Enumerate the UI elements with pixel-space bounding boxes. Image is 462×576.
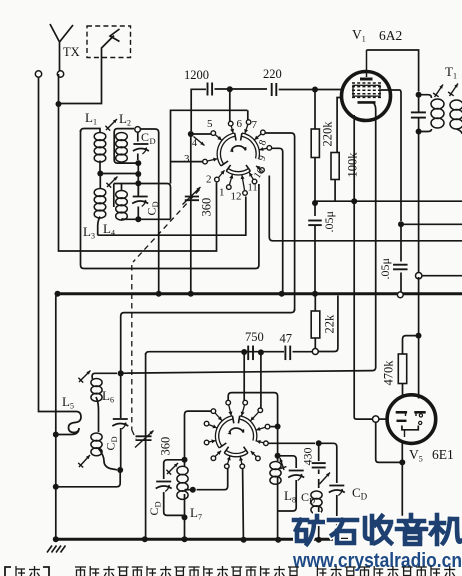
wire CD L8 branch xyxy=(278,456,297,511)
svg-text:7: 7 xyxy=(252,119,258,131)
rotary band switch S1 contact 7 xyxy=(249,172,257,183)
rotary band switch S1 contact 2 xyxy=(228,121,234,133)
svg-text:2: 2 xyxy=(206,174,212,186)
rotary band switch S2 contact 3 xyxy=(241,400,248,415)
svg-text:750: 750 xyxy=(245,330,264,344)
wire 220 to V1 xyxy=(279,89,342,91)
junction L1 L3 xyxy=(97,171,103,177)
wire V1 right exit xyxy=(381,90,401,221)
bus wire ground xyxy=(56,538,348,541)
rotary band switch S1 rotor xyxy=(230,146,247,153)
wire TX to node xyxy=(59,58,102,104)
junction L4 box top xyxy=(135,180,141,186)
capacitor CD (V5 branch) xyxy=(329,486,345,496)
junction bus x282 xyxy=(279,291,285,297)
wire 22k bottom stem xyxy=(314,338,316,348)
rotary band switch S1 contact 4 xyxy=(255,130,266,140)
svg-text:6A2: 6A2 xyxy=(379,28,402,43)
rotary band switch S2 contact 5 xyxy=(204,421,217,428)
svg-text:470k: 470k xyxy=(382,360,396,386)
rotary band switch S2 contact 7 xyxy=(204,439,215,444)
wire contact to 430 line xyxy=(268,442,315,444)
wire contact10 down xyxy=(269,176,462,241)
rotary band switch S1 contact 6 xyxy=(256,166,264,172)
variable capacitor 360 gang2 plates xyxy=(136,436,152,440)
junction V5 bottom xyxy=(399,459,405,465)
svg-text:360: 360 xyxy=(200,198,214,217)
wire L1 bottom lead xyxy=(99,161,101,174)
svg-text:L3: L3 xyxy=(83,224,95,241)
svg-text:CD: CD xyxy=(104,436,120,450)
wire L4 box right up xyxy=(171,110,248,183)
capacitor CD (L4) xyxy=(132,197,148,207)
junction cathode line x355 xyxy=(351,198,357,204)
svg-text:100k: 100k xyxy=(346,152,360,178)
junction T1 top xyxy=(416,92,422,98)
rotary band switch S2 contact 4 xyxy=(251,408,263,421)
wire V1 cathode down xyxy=(121,103,376,373)
capacitor 1200 xyxy=(208,83,213,96)
junction L4 CD bottom xyxy=(135,216,141,222)
junction gnd x278 xyxy=(275,537,281,543)
adjust arrow L6 lower xyxy=(78,455,90,468)
wire contact5 link xyxy=(191,133,211,135)
capacitor 750 xyxy=(248,346,253,361)
variable capacitor 360 gang1 arrow xyxy=(183,187,201,205)
wire V5 left entry xyxy=(379,418,387,420)
wire contact8 right xyxy=(265,133,294,311)
label CD of L6 xyxy=(104,436,120,450)
wire 430 line corner xyxy=(319,443,337,481)
rotary band switch S1 contact 10 xyxy=(215,170,225,182)
rotary band switch S2 contact 6 xyxy=(256,424,270,430)
junction L2 box corner xyxy=(135,160,141,166)
tube V5 envelope xyxy=(387,395,436,444)
rotary band switch S2 contact 10 xyxy=(251,451,260,461)
svg-text:.05μ: .05μ xyxy=(378,258,392,279)
variable capacitor 360 gang1 plates xyxy=(185,197,199,201)
junction L7 tap xyxy=(190,487,196,493)
rotary band switch S1 body arcs xyxy=(219,133,258,173)
wire L2 top to right drop xyxy=(140,129,158,291)
svg-text:L7: L7 xyxy=(190,505,202,522)
wire L7 spine bottom xyxy=(184,460,186,538)
wire 1200 to 220 xyxy=(215,88,268,90)
adjust arrow 430 xyxy=(320,473,331,485)
capacitor CD (L8) xyxy=(288,471,304,481)
svg-text:47: 47 xyxy=(280,332,293,346)
capacitor 220 xyxy=(272,83,277,96)
junction gnd x318 xyxy=(316,537,322,543)
junction avc line left xyxy=(118,370,124,376)
junction CD L6 bottom xyxy=(117,467,123,473)
wire L9 top xyxy=(318,479,320,488)
wire CD L6 to ground rail xyxy=(56,470,120,487)
capacitor CD (L6) xyxy=(112,419,128,429)
wire 1200 branch left xyxy=(191,89,206,131)
capacitor 47 xyxy=(285,346,290,361)
resistor 470k xyxy=(398,354,406,384)
wire V1 grid left exit xyxy=(337,98,341,153)
rotary band switch S1 contact 5 xyxy=(259,146,271,151)
svg-text:CD: CD xyxy=(147,501,163,515)
adjust arrow L3L4 xyxy=(106,177,117,188)
capacitor CD (L7) xyxy=(156,482,172,492)
wire V1 topcap to right xyxy=(367,50,419,92)
rotary band switch S1 contact 11 xyxy=(203,158,218,164)
junction gnd x243 xyxy=(241,537,247,543)
wire left rail upper xyxy=(56,294,58,538)
junction gang1 top xyxy=(188,131,194,137)
wire contact3 left xyxy=(171,161,203,163)
junction 750 right xyxy=(258,349,264,355)
wire CD L7 branch xyxy=(164,460,185,516)
inductor L7 xyxy=(177,466,188,499)
wire T1 prim top xyxy=(419,95,432,98)
junction left rail mid xyxy=(53,484,59,490)
svg-text:220: 220 xyxy=(263,67,282,81)
rotary band switch S2 body arcs xyxy=(217,416,255,455)
rotary band switch S1 contact 8 xyxy=(241,175,248,195)
svg-text:8: 8 xyxy=(257,139,269,147)
svg-text:L1: L1 xyxy=(85,110,97,127)
svg-text:1: 1 xyxy=(219,187,225,199)
wire S2 top link xyxy=(228,393,277,424)
junction mid tap xyxy=(135,171,141,177)
wire screen line right xyxy=(401,223,462,225)
capacitor .05u first xyxy=(308,221,322,226)
junction bus x158 xyxy=(156,291,162,297)
inductor L5 xyxy=(58,412,81,435)
junction bus x191 xyxy=(188,291,194,297)
svg-text:9: 9 xyxy=(256,154,268,162)
svg-text:T1: T1 xyxy=(445,64,457,81)
wire CD L4 stem xyxy=(137,183,139,219)
antenna symbol xyxy=(50,24,73,74)
wire L8 spine xyxy=(277,456,279,538)
svg-text:V5: V5 xyxy=(409,447,423,464)
tube V1 envelope xyxy=(342,72,391,121)
svg-text:CD: CD xyxy=(352,485,368,502)
svg-text:L6: L6 xyxy=(102,388,114,405)
tube V1 top cap and grids xyxy=(352,50,381,102)
wire L6 lower bottom xyxy=(98,448,117,470)
inductor L4 xyxy=(116,191,128,221)
wire osc tank bottom line xyxy=(98,197,246,236)
terminal V5 left xyxy=(373,416,379,422)
svg-text:3: 3 xyxy=(184,153,190,165)
inductor L9 xyxy=(311,491,322,514)
rotary band switch S1 contact 9 xyxy=(227,175,234,190)
wire L2 box xyxy=(114,129,138,164)
wire L4 box xyxy=(114,184,171,220)
wire 750 right down xyxy=(260,353,262,408)
svg-text:12: 12 xyxy=(231,191,242,203)
tube V5 internals xyxy=(396,412,426,437)
wire L7 tap stub xyxy=(185,489,193,491)
rotary band switch S2 contact 12 xyxy=(239,457,245,469)
wire S2 right contact link xyxy=(270,426,278,428)
terminal bus x399 xyxy=(397,292,403,298)
wire 470k bottom xyxy=(402,384,404,398)
terminal 22k bottom xyxy=(312,349,318,355)
junction gnd x56 xyxy=(53,536,59,542)
wire AVC right xyxy=(422,275,462,277)
rotary band switch S2 contact 8 xyxy=(257,440,269,446)
svg-text:D: D xyxy=(150,136,156,146)
rotary band switch S2 contact 1 xyxy=(211,409,222,421)
wire L4 top lead xyxy=(121,184,123,192)
junction bus x57 xyxy=(55,291,61,297)
junction 750 left xyxy=(241,349,247,355)
wire L4 bottom lead xyxy=(122,218,139,221)
wire CD V5branch stem xyxy=(336,481,338,538)
svg-text:22k: 22k xyxy=(323,314,337,334)
inductor L8 xyxy=(270,462,281,485)
svg-text:1200: 1200 xyxy=(184,68,209,82)
terminal ant left xyxy=(35,71,41,77)
adjust arrow L8 xyxy=(280,458,287,470)
inductor L1 xyxy=(94,133,106,163)
svg-text:L5: L5 xyxy=(62,394,74,411)
adjust arrow T1 sec xyxy=(448,84,458,97)
adjust arrow L7 xyxy=(166,463,178,475)
wire x419 down to V5 xyxy=(418,277,420,399)
wire CD L2 stem xyxy=(137,132,139,160)
label CD of L4 xyxy=(145,201,161,215)
terminal L2 top xyxy=(135,127,141,133)
junction antenna node xyxy=(56,101,62,107)
wire V5 cathode down xyxy=(401,442,403,516)
svg-text:6E1: 6E1 xyxy=(432,447,454,462)
gang dashed link xyxy=(132,190,200,440)
contact 4 arrow xyxy=(194,137,205,146)
junction T1 bottom xyxy=(416,129,422,135)
wire V5 left drop xyxy=(376,422,403,462)
resistor 22k xyxy=(311,311,320,338)
wire 220k stem xyxy=(314,90,316,217)
wire 430 stem xyxy=(318,443,320,474)
adjust arrow L6 xyxy=(78,371,90,383)
rotary band switch S1 contact 1 xyxy=(211,131,222,140)
wire V1 pin left down xyxy=(354,115,372,419)
capacitor CD (L2) xyxy=(133,144,149,154)
svg-text:11: 11 xyxy=(248,183,258,194)
junction gnd x145 xyxy=(142,536,148,542)
wire 750 left down xyxy=(243,353,245,401)
wire L1 box left side xyxy=(81,130,259,269)
svg-text:L2: L2 xyxy=(119,111,131,128)
variable capacitor 360 gang2 arrow xyxy=(135,431,154,448)
inductor L3 xyxy=(94,189,106,219)
wire L6 top xyxy=(92,373,117,379)
wire cathode line xyxy=(315,200,462,202)
wire L1 top lead xyxy=(81,129,101,134)
wire gang1 vertical xyxy=(190,134,192,291)
capacitor T1 parallel xyxy=(411,112,426,117)
label CD of L7 xyxy=(147,501,163,515)
wire antenna node down to contact2 xyxy=(59,74,217,251)
junction 470k line xyxy=(416,333,422,339)
junction grid line xyxy=(312,87,318,93)
transformer T1 secondary xyxy=(450,100,462,134)
bus wire B plus xyxy=(58,292,462,295)
junction bus x315 xyxy=(312,291,318,297)
wire S2 right down xyxy=(277,427,279,454)
wire mid junction link xyxy=(100,173,138,175)
svg-text:TX: TX xyxy=(63,45,80,59)
svg-text:360: 360 xyxy=(159,437,173,456)
wire x145 down xyxy=(145,353,147,538)
inductor L2 xyxy=(116,133,128,163)
svg-text:220k: 220k xyxy=(321,121,335,147)
wire 470k top link xyxy=(403,336,419,354)
junction gnd x184 xyxy=(182,536,188,542)
junction L6 top x120 xyxy=(118,370,124,376)
wire contact 12 S2 down xyxy=(242,469,245,538)
wire L3 top lead xyxy=(99,174,101,190)
junction L5 bottom xyxy=(53,432,59,438)
junction L7 top xyxy=(182,457,188,463)
wire 22k top stem xyxy=(314,296,316,312)
junction L8 top xyxy=(275,453,281,459)
rotary band switch S1 contact 3 xyxy=(244,120,251,134)
watermark big text xyxy=(294,516,324,544)
rotary band switch S2 contact 9 xyxy=(211,451,221,461)
adjust arrow T1 prim xyxy=(433,85,443,98)
rotary band switch S2 contact 2 xyxy=(226,400,233,415)
wire contact7 stub xyxy=(247,110,249,120)
wire L7 tap link xyxy=(197,469,228,490)
TX switch blade xyxy=(102,29,120,58)
wire L6 spine xyxy=(96,397,99,432)
wire padder line xyxy=(146,296,338,356)
resistor 100k xyxy=(331,153,339,180)
caption text xyxy=(5,566,455,576)
wire contact6 up xyxy=(229,89,231,121)
terminal AVC out xyxy=(416,273,422,279)
rotary band switch S2 rotor xyxy=(227,428,244,435)
wire S2 left feed xyxy=(185,411,212,459)
wire T1 prim bottom xyxy=(419,129,432,132)
junction 430 top xyxy=(316,440,322,446)
svg-text:.05μ: .05μ xyxy=(322,211,336,232)
wire x138 stem xyxy=(137,163,139,196)
wire L3 bottom lead xyxy=(98,217,100,236)
capacitor .05u second xyxy=(393,265,408,270)
wire x120 branch xyxy=(120,373,122,470)
transformer T1 primary xyxy=(431,99,444,128)
wire feedback xyxy=(121,309,295,371)
adjust arrow L1L2 xyxy=(105,119,117,131)
svg-text:L8: L8 xyxy=(284,488,296,505)
rotary band switch S2 contact 11 xyxy=(225,456,231,468)
inductor L6 upper xyxy=(91,379,102,402)
ground symbol xyxy=(47,546,66,553)
wire T1 cap stem xyxy=(418,95,420,273)
wire .05u first bottom xyxy=(314,225,316,292)
svg-text:C: C xyxy=(141,130,149,144)
svg-text:6: 6 xyxy=(237,118,243,130)
junction 1200 right xyxy=(227,86,233,92)
svg-text:V1: V1 xyxy=(352,27,366,44)
junction screen line xyxy=(398,221,404,227)
wire left terminal down xyxy=(39,77,78,411)
junction L7 bottom xyxy=(182,514,188,520)
resistor 220k xyxy=(311,129,319,158)
wire L9 bottom xyxy=(318,506,320,538)
capacitor 430 xyxy=(312,463,326,467)
wire x401 down xyxy=(400,224,402,292)
wire contact9 right down xyxy=(272,148,283,291)
inductor L6 lower xyxy=(91,433,102,456)
terminal ant right xyxy=(57,71,63,77)
junction S2 right xyxy=(275,424,281,430)
TX dashed box xyxy=(87,26,131,58)
svg-text:5: 5 xyxy=(207,118,213,130)
junction cathode line left xyxy=(312,200,318,206)
wire 100k bottom stem xyxy=(334,180,336,202)
